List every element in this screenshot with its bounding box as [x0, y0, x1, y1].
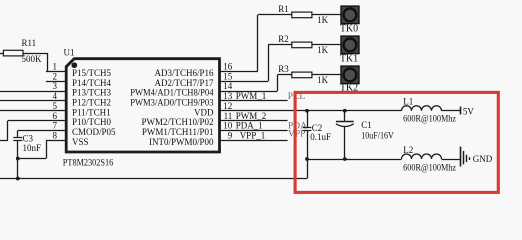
svg-text:R1: R1: [278, 4, 289, 14]
svg-text:600R@100Mhz: 600R@100Mhz: [403, 163, 456, 173]
svg-text:1K: 1K: [317, 75, 329, 85]
svg-text:VSS: VSS: [72, 137, 89, 147]
svg-text:L1: L1: [403, 96, 413, 106]
svg-text:10: 10: [223, 121, 233, 131]
svg-text:VDD: VDD: [194, 107, 214, 117]
svg-text:P12/TCH2: P12/TCH2: [72, 97, 111, 107]
svg-text:12: 12: [223, 101, 232, 111]
svg-text:R2: R2: [278, 34, 289, 44]
svg-text:AD3/TCH6/P16: AD3/TCH6/P16: [154, 68, 214, 78]
svg-text:TK0: TK0: [340, 23, 358, 34]
svg-text:U1: U1: [64, 48, 75, 58]
svg-text:VPP_1: VPP_1: [240, 131, 266, 141]
svg-text:13: 13: [223, 91, 233, 101]
svg-text:15: 15: [223, 71, 233, 81]
svg-text:TK1: TK1: [340, 53, 358, 64]
svg-text:AD2/TCH7/P17: AD2/TCH7/P17: [154, 78, 214, 88]
svg-text:P15/TCH5: P15/TCH5: [72, 68, 112, 78]
svg-text:L2: L2: [403, 145, 413, 155]
svg-text:16: 16: [223, 62, 233, 72]
svg-text:PWM1/TCH11/P01: PWM1/TCH11/P01: [142, 127, 214, 137]
svg-text:600R@100Mhz: 600R@100Mhz: [403, 114, 456, 124]
svg-text:C3: C3: [23, 133, 34, 143]
svg-text:10uF/16V: 10uF/16V: [361, 130, 394, 140]
svg-text:9: 9: [228, 131, 233, 141]
svg-text:7: 7: [53, 121, 58, 131]
svg-text:TK2: TK2: [340, 82, 358, 93]
svg-text:PWM_2: PWM_2: [236, 111, 267, 121]
svg-text:INT0/PWM0/P00: INT0/PWM0/P00: [149, 137, 214, 147]
svg-text:500K: 500K: [22, 54, 43, 64]
svg-text:P11/TCH1: P11/TCH1: [72, 107, 111, 117]
svg-text:8: 8: [53, 131, 58, 141]
svg-text:3: 3: [53, 81, 58, 91]
svg-text:P14/TCH4: P14/TCH4: [72, 78, 112, 88]
svg-text:6: 6: [53, 111, 58, 121]
svg-text:5V: 5V: [463, 106, 475, 116]
svg-text:PDA_1: PDA_1: [236, 121, 263, 131]
svg-text:2: 2: [53, 71, 58, 81]
svg-text:GND: GND: [473, 154, 493, 164]
svg-text:R11: R11: [22, 38, 37, 48]
svg-text:5: 5: [53, 101, 58, 111]
svg-text:14: 14: [223, 81, 233, 91]
svg-text:PWM_1: PWM_1: [236, 91, 267, 101]
svg-text:P10/TCH0: P10/TCH0: [72, 117, 112, 127]
svg-text:4: 4: [53, 91, 58, 101]
svg-text:1: 1: [53, 62, 58, 72]
svg-text:C1: C1: [361, 120, 372, 130]
svg-text:11: 11: [224, 111, 233, 121]
svg-text:CMOD/P05: CMOD/P05: [72, 127, 116, 137]
svg-text:PWM3/AD0/TCH9/P03: PWM3/AD0/TCH9/P03: [130, 97, 214, 107]
svg-text:1K: 1K: [317, 45, 329, 55]
svg-text:1K: 1K: [317, 15, 329, 25]
svg-text:0.1uF: 0.1uF: [310, 132, 331, 142]
svg-text:PWM2/TCH10/P02: PWM2/TCH10/P02: [141, 117, 213, 127]
svg-text:P13/TCH3: P13/TCH3: [72, 88, 112, 98]
svg-text:10nF: 10nF: [23, 143, 42, 153]
svg-text:PWM4/AD1/TCH8/P04: PWM4/AD1/TCH8/P04: [130, 88, 214, 98]
svg-text:VPP: VPP: [288, 130, 305, 140]
svg-text:PT8M2302S16: PT8M2302S16: [63, 157, 114, 167]
svg-text:R3: R3: [278, 64, 289, 74]
